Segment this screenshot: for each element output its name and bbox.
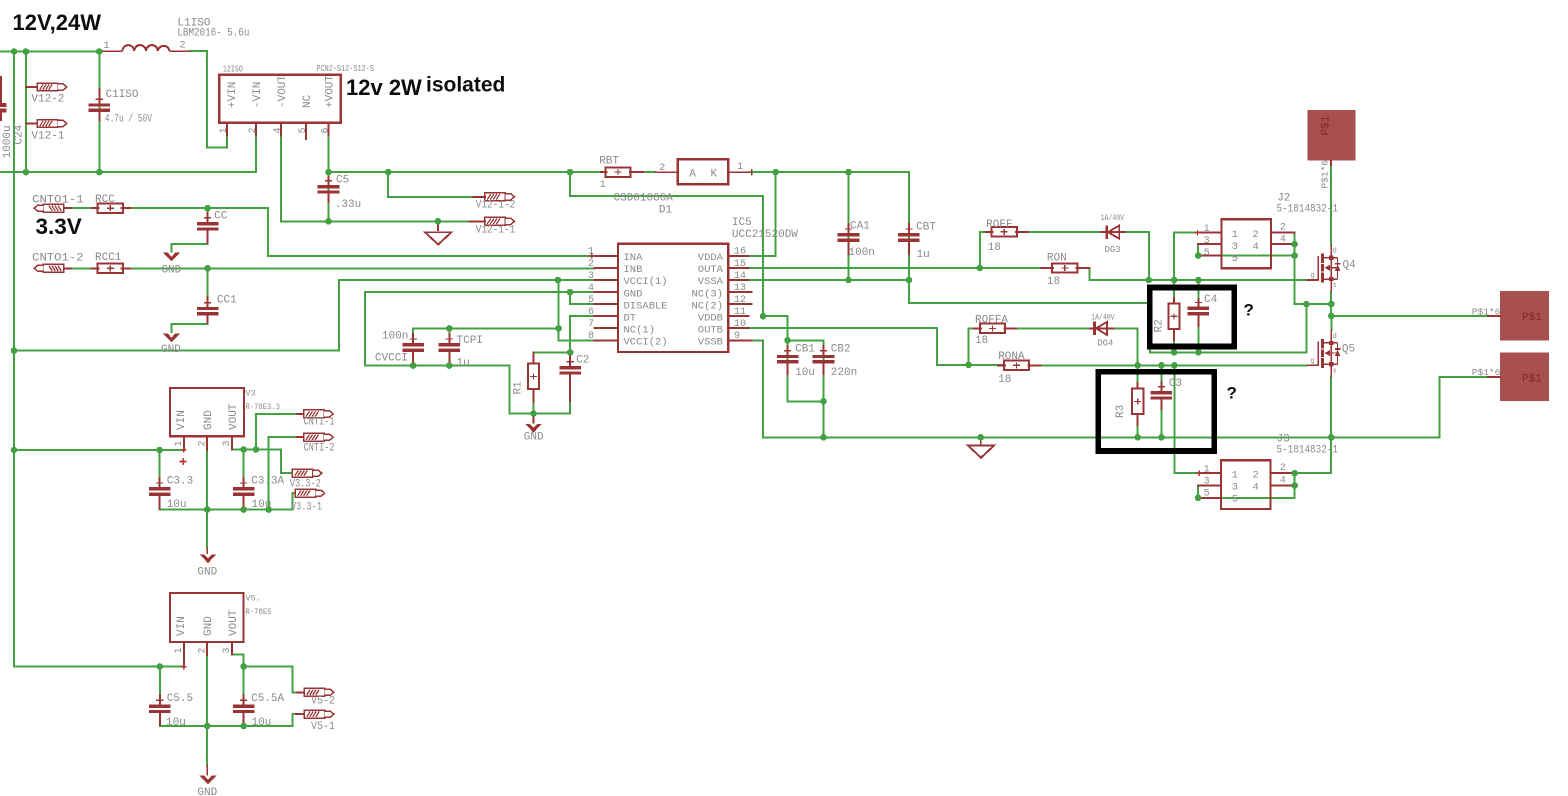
wire CC1 top [207, 268, 209, 303]
node vssa [845, 277, 912, 284]
capacitor C2 [559, 353, 581, 402]
node bus taps [11, 347, 18, 453]
capacitor C3.3 [149, 477, 171, 510]
DC-DC module 12ISO PCN2-S12-S12-S [219, 75, 341, 123]
wire input branch [25, 52, 27, 173]
node J2 pins [1195, 241, 1298, 259]
wire C5.5A leads [243, 667, 245, 727]
wire V3 gnd rail [160, 493, 295, 509]
wire J2 pin1 riser [1174, 233, 1197, 280]
connector J3 5-1814832-1 [1221, 460, 1271, 509]
svg-text:RBT: RBT [599, 156, 619, 168]
svg-text:3: 3 [1204, 236, 1210, 247]
svg-text:VSSB: VSSB [698, 337, 723, 349]
svg-text:GND: GND [203, 410, 215, 430]
svg-text:10u: 10u [167, 499, 187, 511]
svg-text:CNTO1-2: CNTO1-2 [32, 252, 84, 264]
wire cap bottoms [413, 352, 449, 366]
resistor R1 [528, 364, 539, 390]
svg-text:GND: GND [161, 264, 181, 276]
svg-text:?: ? [1244, 301, 1254, 320]
svg-text:100n: 100n [849, 247, 875, 259]
svg-text:VDDA: VDDA [698, 252, 724, 264]
V5 pin stubs [184, 642, 232, 667]
wire RBT to D1 [643, 171, 655, 173]
svg-text:9: 9 [734, 331, 740, 342]
lead V12-1-2 [474, 196, 485, 198]
lead V12-1-1 [470, 220, 485, 222]
wire C3.3 leads [159, 450, 161, 510]
CC1 bottom lead [207, 316, 209, 323]
svg-text:C2: C2 [576, 354, 589, 366]
svg-text:V12-1: V12-1 [31, 130, 64, 142]
wire DT to R1 C2 [534, 351, 571, 353]
svg-text:CNTI-1: CNTI-1 [304, 417, 335, 429]
svg-text:12: 12 [734, 295, 746, 306]
connector pin V3.3-2 [292, 469, 322, 477]
wire D1 out rail / CBT riser [750, 172, 909, 280]
svg-text:Q5: Q5 [1342, 343, 1355, 355]
svg-text:10u: 10u [795, 367, 815, 379]
lead CNTO1-2 [64, 267, 71, 269]
wire CB1 bottom [788, 340, 824, 401]
connector pin CNTI-1 [304, 410, 334, 418]
wire OUTA to RON [748, 267, 1051, 269]
wire pad1 to Q4 drain [1330, 160, 1332, 244]
svg-text:RON: RON [1047, 252, 1067, 264]
svg-text:VOUT: VOUT [228, 403, 240, 430]
svg-text:R2: R2 [1154, 319, 1166, 332]
connector pin CNTO1-2 [34, 264, 64, 272]
wire L1ISO to 12ISO pin1 [190, 51, 227, 147]
wire V5 gnd pin [206, 655, 208, 765]
lead CNTO1-1 [64, 207, 71, 209]
svg-text:CBT: CBT [916, 221, 936, 233]
wire V5 input [14, 666, 184, 668]
IC U IC5 UCC21520DW [618, 244, 728, 352]
ground GND under V3 [200, 548, 217, 563]
resistor RONA [1004, 361, 1029, 370]
svg-text:R1: R1 [513, 381, 525, 395]
svg-text:GND: GND [197, 787, 217, 796]
svg-text:3: 3 [1232, 482, 1238, 494]
svg-text:+VIN: +VIN [227, 82, 239, 108]
svg-text:V3.3-2: V3.3-2 [290, 478, 321, 490]
svg-text:P$1: P$1 [1321, 115, 1333, 135]
svg-text:4: 4 [1280, 475, 1286, 486]
svg-text:Q4: Q4 [1343, 259, 1357, 271]
capacitor C1ISO [89, 88, 111, 121]
svg-text:10: 10 [734, 319, 746, 330]
node output A [1303, 301, 1335, 319]
resistor ROFFA [980, 324, 1005, 333]
ROFF leads [986, 231, 1028, 233]
svg-text:C3.3A: C3.3A [251, 475, 284, 487]
node vcci gnd dt [410, 277, 574, 417]
svg-text:NC(3): NC(3) [691, 288, 723, 300]
wire 12V left bus [13, 52, 15, 667]
svg-text:8: 8 [588, 331, 594, 342]
node 12V input [11, 48, 103, 55]
svg-text:D1: D1 [659, 205, 673, 217]
svg-text:-VIN: -VIN [252, 82, 264, 108]
svg-text:OUTB: OUTB [698, 324, 723, 336]
wire +VOUT riser / C5 [328, 136, 330, 222]
svg-text:1: 1 [1204, 224, 1210, 235]
svg-text:1: 1 [1232, 229, 1238, 241]
ground GND under R1 [525, 414, 542, 433]
connector pin V12-1 [37, 120, 67, 128]
pad P$1 middle [1500, 291, 1549, 340]
wire gate B rail [1041, 364, 1307, 366]
svg-text:1u: 1u [917, 249, 930, 261]
svg-text:CB1: CB1 [795, 344, 815, 356]
connector J2 5-1814832-1 [1221, 219, 1271, 268]
svg-text:IC5: IC5 [732, 217, 752, 229]
node gate A [977, 265, 1202, 284]
wire CC to GND [172, 230, 208, 252]
capacitor CBT [898, 223, 920, 255]
svg-text:CNTI-2: CNTI-2 [304, 443, 335, 455]
wire CA1 riser [848, 172, 850, 280]
svg-text:1: 1 [174, 647, 185, 653]
wire J3 drop [1295, 437, 1332, 473]
wire V5 gnd rail [160, 714, 304, 726]
svg-text:DG4: DG4 [1097, 339, 1113, 349]
svg-text:GND: GND [161, 344, 181, 356]
J3 pin stubs [1198, 473, 1295, 498]
wire to V5-2 [244, 667, 305, 693]
svg-text:4: 4 [1280, 235, 1286, 246]
diode DG3 [1100, 225, 1126, 239]
svg-text:NC(2): NC(2) [691, 300, 723, 312]
svg-text:V12-1-2: V12-1-2 [476, 200, 516, 212]
lead V12-1 [26, 122, 37, 124]
wire ROFF to DG3 [1028, 231, 1100, 233]
svg-text:5: 5 [588, 295, 594, 306]
connector pin V12-1-2 [485, 193, 515, 201]
node source A rail [1171, 349, 1202, 356]
wire CNTO1-2 to RCC1 [64, 267, 99, 269]
wire CNTI-2 [269, 436, 304, 438]
svg-text:3: 3 [222, 647, 233, 653]
svg-text:LBM2016- 5.6u: LBM2016- 5.6u [177, 28, 249, 40]
svg-text:10u: 10u [166, 717, 186, 729]
svg-text:?: ? [1227, 384, 1237, 403]
svg-text:C4: C4 [1204, 294, 1218, 306]
svg-text:18: 18 [998, 374, 1011, 386]
capacitor CA1 [838, 223, 860, 255]
svg-text:14: 14 [734, 271, 746, 282]
svg-text:5: 5 [1204, 248, 1210, 259]
RBT leads [601, 171, 643, 173]
svg-text:OUTA: OUTA [698, 264, 724, 276]
wire VDDA riser [748, 172, 775, 256]
svg-text:2: 2 [1253, 470, 1259, 482]
node input return [23, 169, 103, 176]
transistor Q5 [1307, 330, 1341, 378]
svg-text:VIN: VIN [176, 410, 188, 430]
svg-text:PCN2-S12-S12-S: PCN2-S12-S12-S [316, 63, 374, 74]
svg-text:CA1: CA1 [850, 221, 870, 233]
wire VDDB riser [570, 172, 763, 316]
resistor RBT [606, 167, 631, 176]
svg-text:GND: GND [203, 616, 215, 636]
wire RCC1 to INB [122, 267, 595, 269]
12ISO pin stubs [227, 123, 328, 139]
svg-text:2: 2 [1280, 463, 1286, 474]
resistor R3 [1132, 389, 1143, 415]
RCC leads [92, 207, 130, 209]
ground GND under V5 [200, 765, 217, 784]
J2 pin stubs [1198, 233, 1295, 256]
resistor RON [1052, 263, 1077, 272]
wire RCC to INA [122, 208, 595, 256]
wire J3 pins 2 4 5 [1198, 473, 1295, 498]
svg-text:C5.5: C5.5 [167, 693, 193, 705]
capacitor CVCCI [402, 333, 424, 366]
svg-text:CB2: CB2 [831, 344, 851, 356]
svg-text:V12-2: V12-2 [31, 94, 64, 106]
wire TCPI top [448, 328, 450, 343]
svg-text:18: 18 [975, 335, 988, 347]
R3 leads [1137, 383, 1139, 425]
wire C4 leads [1197, 280, 1199, 352]
wire DT riser [570, 316, 594, 352]
svg-text:ROFF: ROFF [986, 219, 1012, 231]
wire R1 bottom [533, 390, 535, 414]
wire VCCI feed [14, 280, 595, 351]
svg-text:1: 1 [737, 162, 743, 173]
wire Q5 source [1330, 377, 1332, 437]
wire CB2 bottom riser [823, 340, 825, 437]
wire to V12-1-2 [388, 172, 473, 197]
highlight box R3 C3 [1098, 372, 1214, 451]
node control in [204, 205, 211, 272]
svg-text:CVCCI: CVCCI [375, 353, 408, 365]
svg-text:3: 3 [1204, 476, 1210, 487]
svg-text:R-78E5: R-78E5 [246, 607, 272, 617]
svg-text:NC: NC [302, 94, 314, 108]
lead V12-2 [26, 86, 37, 88]
node V3 caps [156, 446, 272, 513]
connector pin CNTI-2 [304, 433, 334, 441]
node J3 pins [1195, 470, 1298, 501]
svg-text:VDDB: VDDB [698, 312, 723, 324]
svg-text:GND: GND [197, 567, 217, 579]
wire VCCI2 jog [559, 328, 595, 340]
svg-text:P$1*6: P$1*6 [1320, 160, 1331, 189]
svg-text:P$1: P$1 [1522, 312, 1542, 324]
ROFFA leads [974, 327, 1016, 329]
wire CC1 to GND [172, 316, 208, 333]
wire gnd rail caps [365, 292, 570, 413]
svg-text:2: 2 [180, 41, 186, 52]
V3 pin stubs [184, 436, 232, 450]
svg-text:VCCI(1): VCCI(1) [624, 276, 668, 288]
resistor RCC1 [98, 264, 123, 273]
capacitor C5 [318, 176, 340, 203]
svg-text:C24: C24 [13, 124, 25, 144]
wire Q4 source node to pad2 [1331, 292, 1488, 316]
svg-text:R-78E3.3: R-78E3.3 [246, 402, 281, 412]
wire CNTI-2 riser [268, 437, 270, 509]
wire V3 input [14, 449, 184, 451]
svg-text:100n: 100n [382, 330, 408, 342]
svg-text:15: 15 [734, 259, 746, 270]
RON leads [1041, 267, 1090, 269]
svg-text:4: 4 [1253, 241, 1259, 253]
svg-text:1: 1 [219, 127, 230, 133]
svg-text:3.3V: 3.3V [36, 214, 82, 239]
svg-text:VSSA: VSSA [698, 276, 724, 288]
svg-text:C3.3: C3.3 [167, 475, 193, 487]
svg-text:12V,24W: 12V,24W [13, 10, 102, 35]
ground (open) channel B [968, 437, 994, 457]
svg-text:C1ISO: C1ISO [106, 89, 139, 101]
svg-text:TCPI: TCPI [457, 335, 483, 347]
wire DG3 out [1126, 232, 1149, 280]
svg-text:220n: 220n [831, 367, 857, 379]
capacitor TCPI [439, 333, 461, 366]
capacitor C24 (cut off at edge) [0, 76, 6, 121]
wire C1ISO riser [98, 52, 100, 173]
svg-text:1: 1 [174, 440, 185, 446]
svg-text:18: 18 [1047, 276, 1060, 288]
svg-text:INA: INA [624, 252, 644, 264]
plus mark V3 [180, 458, 187, 465]
RCC1 leads [92, 267, 130, 269]
svg-text:5: 5 [1232, 494, 1238, 506]
svg-text:1000u: 1000u [2, 125, 14, 158]
ground GND under CC1 [163, 333, 180, 342]
svg-text:12ISO: 12ISO [223, 64, 243, 75]
regulator V5 R-78E5 [170, 593, 244, 642]
svg-text:2: 2 [1253, 229, 1259, 241]
wire ROFFA branch [969, 328, 980, 365]
wire VDDB to CB1 CB2 [763, 316, 824, 340]
node VISO rail [325, 169, 852, 176]
svg-text:1: 1 [1232, 470, 1238, 482]
wire to Q5 drain [1330, 316, 1332, 330]
node iso return [325, 218, 441, 225]
wire 12V top rail [0, 51, 100, 53]
wire input bottom rail to -VIN [0, 136, 256, 172]
wire C2 leads [569, 352, 571, 413]
diode DG4 [1089, 322, 1114, 336]
svg-text:DT: DT [624, 312, 637, 324]
svg-text:VCCI(2): VCCI(2) [624, 337, 668, 349]
wire to CNTI-1 [256, 414, 304, 450]
svg-text:2: 2 [1280, 223, 1286, 234]
svg-text:.33u: .33u [335, 199, 361, 211]
connector pin V12-2 [37, 83, 67, 91]
svg-text:7: 7 [588, 319, 594, 330]
wire VSSA to source A [748, 280, 1306, 352]
svg-text:10u: 10u [252, 499, 272, 511]
wire J3 pin1 riser [1174, 365, 1199, 473]
capacitor CB1 [777, 345, 799, 375]
svg-text:2: 2 [198, 647, 209, 653]
svg-text:RCC1: RCC1 [95, 252, 122, 264]
svg-text:ROFFA: ROFFA [975, 314, 1008, 326]
wire VOUT3 to V3.3-2 [232, 450, 292, 474]
svg-text:C3: C3 [1169, 378, 1182, 390]
svg-text:12v 2W: 12v 2W [346, 75, 422, 100]
node source B rail [977, 434, 1334, 441]
svg-text:K: K [711, 168, 718, 180]
svg-text:V5-1: V5-1 [311, 721, 335, 733]
connector pin V5-2 [304, 688, 334, 696]
wire C3.3A leads [243, 450, 245, 510]
svg-text:11: 11 [734, 307, 746, 318]
lead CNTI-1 [297, 413, 304, 415]
wire CC top [207, 208, 209, 222]
svg-text:18: 18 [988, 242, 1001, 254]
svg-text:1u: 1u [457, 358, 470, 370]
wire C3 leads [1160, 365, 1162, 437]
regulator V3 R-78E3.3 [170, 388, 244, 436]
connector pin V5-1 [304, 710, 334, 718]
inductor L1ISO [100, 45, 190, 51]
capacitor C5.5A [233, 694, 255, 726]
pad P$1 bottom [1500, 352, 1549, 401]
svg-text:2: 2 [198, 440, 209, 446]
highlight box R2 C4 [1150, 288, 1234, 347]
capacitor C5.5 [149, 694, 171, 726]
svg-text:DG3: DG3 [1105, 245, 1121, 255]
wire GND pin4 [365, 291, 595, 293]
node gate B [965, 362, 1177, 369]
svg-text:2: 2 [659, 163, 665, 174]
capacitor CC1 [197, 296, 219, 316]
svg-text:P$1*6: P$1*6 [1472, 367, 1501, 378]
svg-text:P$1: P$1 [1522, 373, 1542, 385]
wire ROFFA to DG4 [1016, 327, 1089, 329]
wire C5.5 leads [159, 667, 161, 727]
wire -VOUT rail to V12-1-1 [281, 136, 470, 222]
connector pin V12-1-1 [485, 217, 515, 225]
svg-text:isolated: isolated [426, 74, 505, 97]
svg-text:+VOUT: +VOUT [324, 75, 336, 108]
pin connection ticks [181, 230, 1202, 670]
svg-text:CC1: CC1 [217, 295, 237, 307]
svg-text:2: 2 [248, 127, 259, 133]
wire VSSB rail to pad [752, 340, 1489, 437]
capacitor C3.3A [233, 477, 255, 510]
ground GND under CC [163, 252, 180, 261]
node V5 caps [157, 663, 247, 729]
R2 leads [1173, 298, 1175, 340]
svg-text:1A/40V: 1A/40V [1101, 214, 1125, 223]
svg-text:GND: GND [524, 431, 544, 443]
wire gate A rail [1090, 268, 1307, 280]
svg-text:3: 3 [222, 440, 233, 446]
wire DISABLE jog [570, 292, 595, 304]
svg-text:R3: R3 [1115, 405, 1127, 418]
svg-text:V12-1-1: V12-1-1 [476, 225, 516, 237]
svg-text:UCC21520DW: UCC21520DW [732, 229, 798, 241]
svg-text:1: 1 [104, 41, 110, 52]
wire R3 leads [1137, 365, 1139, 437]
svg-text:VOUT: VOUT [228, 609, 240, 636]
wire VOUT5 jog [232, 654, 244, 666]
svg-text:2: 2 [588, 259, 594, 270]
svg-text:4.7u / 50V: 4.7u / 50V [105, 113, 152, 125]
pad P$1 top [1308, 110, 1356, 160]
svg-text:13: 13 [734, 283, 746, 294]
svg-text:6: 6 [588, 307, 594, 318]
